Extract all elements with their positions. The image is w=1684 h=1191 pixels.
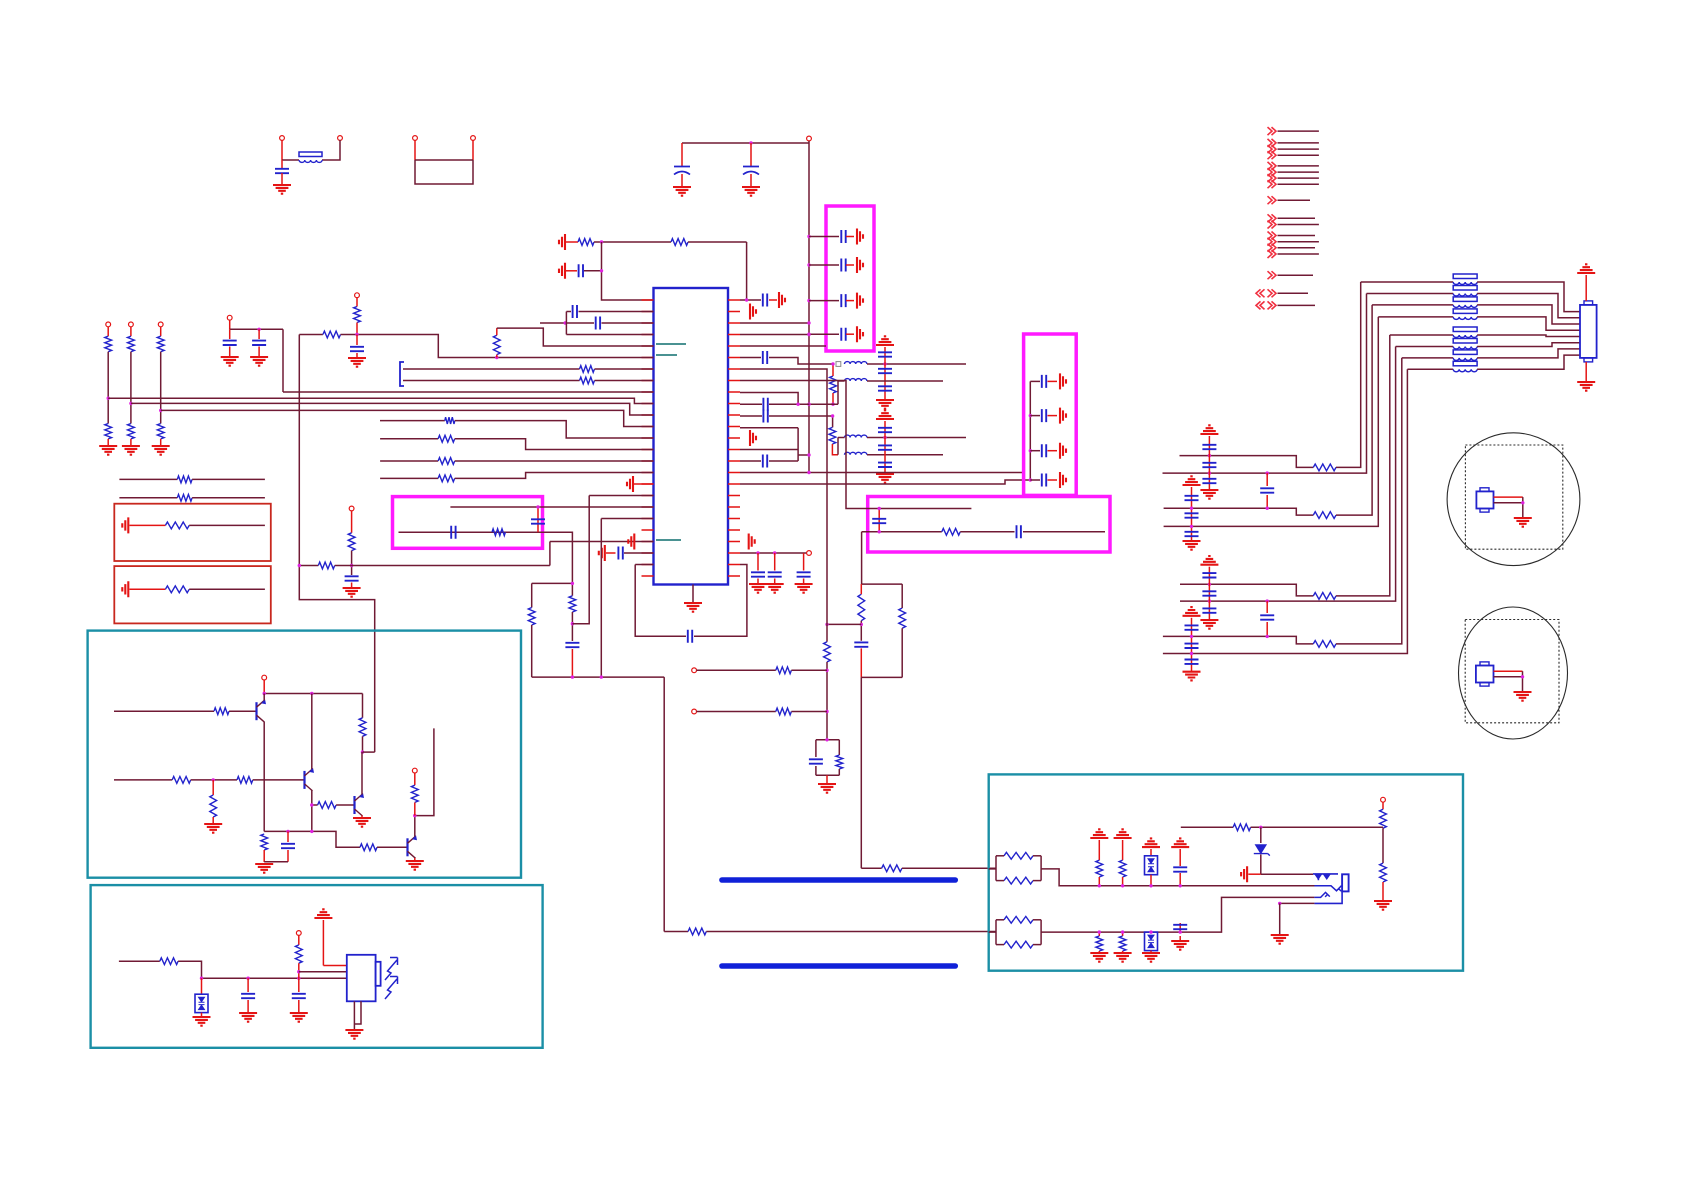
diode pack D1 d1: [199, 997, 205, 1002]
resistor R58: [1313, 512, 1336, 519]
wire W loop2 left: [995, 920, 997, 945]
ferrite bead FB3: [1453, 294, 1477, 297]
wire bead3 in: [1372, 304, 1453, 306]
diode pack D3 d2: [1148, 943, 1154, 948]
wire P3b: [356, 353, 358, 358]
resistor R43: [411, 785, 418, 802]
ferrite bead FB6 body: [1453, 327, 1477, 332]
wire W z1: [1181, 826, 1233, 828]
wire pin518 left: [601, 518, 653, 520]
ground H3: [795, 584, 813, 593]
teal box 1: [88, 631, 521, 878]
ac ground H2: [750, 304, 756, 320]
junction M1 w: [1521, 501, 1524, 504]
junction S6: [286, 830, 289, 833]
wire T r stub: [298, 936, 300, 945]
ferrite bead FB6: [1453, 335, 1477, 338]
transistor Q3 leads: [355, 794, 363, 816]
wire pin323 left: [540, 322, 594, 324]
wire W loop2 in: [989, 931, 996, 933]
ground up stack2: [876, 410, 894, 419]
chevron port 3: [1268, 145, 1277, 153]
jack tip contacts: [1313, 874, 1338, 880]
wire Q4 collector: [414, 816, 416, 837]
wire pin449 spur: [798, 454, 809, 456]
ground T4: [345, 1030, 363, 1039]
wire box2 b2: [1030, 415, 1040, 417]
ferrite bead FB8 body: [1453, 350, 1477, 355]
ac ground J4: [1060, 472, 1066, 488]
IC U1 inner line 3: [656, 539, 681, 541]
wire T c2 b: [298, 1000, 300, 1013]
ground O1: [221, 357, 239, 366]
wire pin311: [566, 311, 571, 313]
resistor R37: [210, 795, 217, 817]
junction T2: [246, 977, 249, 980]
wire W sh1 a: [1098, 840, 1100, 860]
wire rail to C7: [809, 333, 839, 335]
junction 832 416: [831, 414, 834, 417]
ground M2: [1514, 692, 1532, 701]
wire C9 out: [769, 299, 777, 301]
ac ground 3: [857, 293, 863, 309]
ac ground 2: [857, 257, 863, 273]
resistor R31: [569, 596, 576, 612]
wire C4 out: [846, 236, 854, 238]
wire F1: [566, 270, 577, 272]
ground G1: [273, 185, 291, 194]
wire chevron 15: [1278, 253, 1319, 255]
resistor R50: [1096, 860, 1103, 877]
junction W sh1: [1098, 884, 1101, 887]
capacitor C48: [1185, 532, 1199, 536]
chevron port 12: [1268, 232, 1277, 240]
wire W r1 c: [1382, 882, 1384, 901]
resistor R30: [165, 586, 189, 593]
ac ground H3: [750, 430, 756, 446]
jack sleeve: [1314, 891, 1342, 903]
ground X1: [1200, 490, 1218, 499]
wire Q1 collector: [263, 694, 265, 701]
capacitor C37: [281, 844, 295, 848]
wire T c1 b: [247, 1000, 249, 1013]
wire L3 out: [867, 437, 966, 439]
ground up W2: [1114, 829, 1132, 838]
resistor R27: [177, 476, 192, 483]
capacitor C1: [275, 169, 289, 173]
capacitor C39: [292, 994, 306, 998]
wire T rail: [202, 977, 347, 979]
wire P4 vertical: [299, 335, 374, 753]
wire RC left c: [860, 648, 862, 677]
terminal net2: [129, 322, 134, 327]
resistor R12: [105, 336, 112, 352]
ground X2: [1183, 541, 1201, 550]
wire P6a: [403, 368, 580, 370]
wire box2 b3 out: [1048, 450, 1058, 452]
ferrite bead FB9: [1453, 369, 1477, 372]
diode pack D1 d2: [199, 1005, 205, 1010]
wire C17 out: [769, 460, 798, 462]
wire N vert: [565, 312, 567, 335]
wire chain3 c: [160, 439, 162, 446]
wire T pack gnd: [201, 1013, 203, 1017]
ground G2: [673, 187, 691, 196]
wire chevron 8: [1278, 183, 1319, 185]
resistor R55: [1380, 809, 1387, 828]
wire box2 b3: [1030, 450, 1040, 452]
wire V bus: [532, 676, 665, 678]
resistor R39: [359, 718, 366, 737]
wire R37 gnd: [212, 817, 214, 824]
wire chevron 5: [1278, 165, 1319, 167]
capacitor C46: [1185, 496, 1199, 500]
wire L1 out: [867, 363, 966, 365]
wire chevron 11: [1278, 224, 1319, 226]
wire RC left b: [860, 621, 862, 641]
wire IC gnd stub: [692, 585, 694, 604]
capacitor C60: [763, 410, 767, 423]
wire box3 bottom: [862, 531, 942, 533]
terminal S1: [262, 675, 267, 680]
wire to C1: [281, 160, 283, 168]
wire W loop2 right: [1040, 920, 1042, 945]
wire pin334 to rail: [740, 334, 809, 336]
wire S link: [363, 751, 375, 753]
terminal net6: [349, 506, 354, 511]
terminal net4: [227, 315, 232, 320]
wire bead8 in: [1407, 368, 1453, 370]
capacitor C18: [1042, 375, 1046, 388]
wire drop x601: [602, 242, 654, 300]
ground up X1: [1200, 425, 1218, 434]
IC U1 inner line 1: [656, 343, 686, 345]
wire Q3 base b: [336, 804, 354, 806]
ground up T: [314, 909, 332, 918]
wire bus4: [161, 410, 654, 426]
ground M1: [1514, 518, 1532, 527]
wire C3 gnd: [750, 174, 752, 186]
ferrite bead FB5 body: [1453, 309, 1477, 314]
capacitor C3: [743, 167, 759, 175]
wire W loop1 topr: [1033, 855, 1041, 857]
wire chevron 3: [1278, 148, 1319, 150]
wire chain2 c: [130, 439, 132, 446]
wire chain3 b: [160, 352, 162, 424]
wire L2 left: [838, 381, 845, 404]
wire pin415a: [740, 415, 762, 417]
junction chain1: [107, 397, 110, 400]
resistor R32: [528, 608, 535, 626]
wire loop body3: [694, 565, 747, 637]
capacitor C15: [878, 445, 892, 449]
wire S2 stub b: [414, 802, 416, 815]
wire box3 drop: [861, 532, 863, 584]
wire W c b: [1179, 873, 1181, 886]
wire S col wire b: [362, 736, 364, 752]
junction W sl1: [1098, 930, 1101, 933]
wire box2 b2 out: [1048, 415, 1058, 417]
magenta box 2: [1024, 334, 1077, 495]
capacitor C7: [841, 328, 845, 341]
resistor R60: [1313, 641, 1336, 648]
ground up X3: [1200, 556, 1218, 565]
wire Q chain b: [351, 551, 353, 575]
capacitor C23: [1017, 525, 1021, 538]
transistor Q2 arrow: [309, 768, 314, 773]
ground up W3: [1142, 838, 1160, 847]
junction L3 capstack: [883, 436, 886, 439]
wire net4 c1: [229, 329, 231, 339]
terminal net3: [158, 322, 163, 327]
wire X colA2: [1208, 567, 1210, 619]
ground up X2: [1183, 476, 1201, 485]
IC U1: [654, 288, 729, 585]
wire Q2 emitter: [311, 791, 313, 832]
resistor R36: [172, 777, 191, 784]
wire W sl1 b: [1098, 951, 1100, 953]
wire P1 drop: [281, 140, 283, 160]
ferrite bead FB5: [1453, 317, 1477, 320]
IC U1 inner line 2: [656, 354, 677, 356]
terminal S2: [412, 768, 417, 773]
wire chevron 10: [1278, 217, 1316, 219]
wire P7b: [595, 380, 654, 382]
wire W z6: [1261, 873, 1313, 875]
ferrite bead FB7: [1453, 347, 1477, 350]
wire P6b: [595, 368, 654, 370]
junction 798 404: [796, 403, 799, 406]
junction S5: [310, 803, 313, 806]
wire V down1: [663, 677, 665, 931]
ac ground R2: [122, 581, 128, 597]
terminal K2: [692, 709, 697, 714]
wire bead6 out: [1477, 343, 1580, 347]
resistor R4: [829, 427, 836, 444]
blue bar 2: [722, 963, 955, 969]
capacitor C31: [252, 341, 266, 345]
red box 2: [114, 566, 270, 623]
resistor R8: [824, 642, 831, 662]
wire V loop a: [531, 583, 533, 607]
wire W jack gnd a: [1279, 903, 1281, 934]
wire W sl1 a: [1098, 932, 1100, 936]
ferrite bead FB8: [1453, 358, 1477, 361]
resistor R20: [323, 331, 341, 338]
wire C5 out: [846, 264, 854, 266]
capacitor C20: [1042, 444, 1046, 457]
wire W sh2 b: [1122, 877, 1124, 886]
wire 798 vertical: [797, 428, 799, 461]
junction X2: [1208, 471, 1211, 474]
wire L4 out: [867, 454, 943, 456]
motor M1 tab bottom: [1480, 509, 1489, 513]
ground Q4: [406, 861, 424, 870]
chevron port 15: [1268, 250, 1277, 258]
junction rail 323: [807, 321, 810, 324]
ground W2: [1114, 953, 1132, 962]
wire X rowD2: [1163, 369, 1408, 653]
wire box2 b4: [1030, 479, 1040, 481]
ac ground 4: [857, 326, 863, 342]
wire loop body2: [635, 565, 686, 637]
wire Q chain a: [351, 511, 353, 533]
capacitor C50: [1202, 573, 1216, 577]
capacitor C43: [1202, 445, 1216, 449]
wire loop right: [472, 140, 474, 160]
magenta box 4: [393, 497, 543, 549]
motor M2 tab bottom: [1480, 683, 1489, 687]
wire pin541 chain: [550, 541, 654, 543]
junction W sh3: [1149, 884, 1152, 887]
junction pin300: [745, 298, 748, 301]
junction cap553 b: [773, 551, 776, 554]
wire RC left a: [860, 584, 862, 594]
wire W loop1 botr: [1033, 880, 1041, 882]
wire T r stub b: [298, 963, 300, 978]
junction rail: [749, 141, 752, 144]
capacitor C8: [579, 264, 583, 277]
wire loop body: [415, 160, 473, 184]
wire M1 a: [1494, 496, 1523, 498]
junction X9: [1266, 599, 1269, 602]
wire X caplink1: [1266, 473, 1268, 486]
wire chevron 18: [1278, 304, 1316, 306]
wire stack2: [884, 421, 886, 473]
wire Q chain c: [351, 583, 353, 589]
diode pack D2: [1145, 856, 1158, 875]
transistor Q4 leads: [408, 836, 416, 858]
wire row478 a: [380, 477, 438, 479]
IR receiver U2: [347, 955, 376, 1002]
wire bus2: [108, 398, 653, 403]
wire W loop2 topr: [1033, 919, 1041, 921]
wire L3 left: [838, 437, 845, 439]
wire V loop b: [531, 625, 533, 677]
ground P1: [348, 358, 366, 367]
junction box2 2: [1029, 449, 1032, 452]
wire net4 down: [282, 329, 284, 392]
resistor R49: [1004, 941, 1033, 948]
wire S top rail: [264, 693, 362, 695]
wire c553c g: [803, 579, 805, 585]
inductor L2: [845, 379, 867, 381]
wire Q row b: [335, 565, 550, 567]
capacitor C33: [451, 526, 455, 539]
resistor R26: [318, 562, 334, 569]
junction chain2: [129, 402, 132, 405]
chevron port 7: [1268, 174, 1277, 182]
ground W jack: [1271, 935, 1289, 944]
junction S1: [263, 692, 266, 695]
capacitor C27: [596, 317, 600, 330]
wire R10 out: [791, 711, 827, 713]
chevron port 10: [1268, 214, 1277, 222]
terminal K1: [692, 668, 697, 673]
ground up X4: [1183, 607, 1201, 616]
wire pin392: [740, 393, 798, 405]
wire P2: [299, 334, 323, 336]
chevron port 11: [1268, 221, 1277, 229]
resistor R22: [580, 366, 595, 373]
ground X4: [1183, 672, 1201, 681]
wire R3 bottom: [832, 393, 834, 404]
ground T2: [239, 1013, 257, 1022]
wire chevron 7: [1278, 177, 1319, 179]
wire C37 top: [287, 831, 289, 842]
junction cap553 a: [756, 551, 759, 554]
wire S2 stub: [414, 773, 416, 785]
wire W r1 b: [1382, 828, 1384, 863]
ac ground J3: [1060, 443, 1066, 459]
junction chain3: [159, 409, 162, 412]
chevron port 4: [1268, 151, 1277, 159]
inductor L4: [845, 452, 867, 454]
junction T4: [297, 970, 300, 973]
junction RC tap: [860, 623, 863, 626]
chevron port 9: [1268, 196, 1277, 204]
resistor R48: [1004, 916, 1033, 923]
resistor R23: [580, 377, 595, 384]
dashed circle 2: [1459, 607, 1568, 739]
wire rbox2 a: [130, 588, 166, 590]
wire S col wire: [362, 694, 364, 718]
ground up W1: [1090, 829, 1108, 838]
transistor Q1: [255, 702, 257, 720]
wire chain3 a: [160, 327, 162, 336]
wire P5: [497, 328, 654, 346]
wire W loop2 botl: [996, 944, 1004, 946]
wire W c2 a: [1179, 923, 1181, 932]
wire loop left: [635, 564, 653, 566]
wire C8 to node: [584, 270, 602, 272]
connector J2 tab top: [1584, 301, 1593, 305]
wire R9 out: [791, 669, 827, 671]
wire row478 b: [455, 473, 654, 479]
capacitor C10: [763, 351, 767, 364]
junction M2: [825, 710, 828, 713]
transistor Q3 arrow: [359, 793, 364, 798]
wire bead8 out: [1477, 355, 1580, 369]
junction Q1: [536, 505, 539, 508]
wire pin369 long: [740, 369, 827, 642]
wire Q4 col link: [415, 728, 434, 815]
terminal W1: [1381, 797, 1386, 802]
wire P3a: [356, 335, 358, 346]
ac ground R1: [122, 517, 128, 533]
junction X5: [1190, 507, 1193, 510]
resistor R11: [836, 755, 843, 769]
junction M2 w: [1521, 675, 1524, 678]
wire X rowA2 b: [1336, 335, 1390, 596]
wire chevron 9: [1278, 199, 1311, 201]
ground xtal: [818, 784, 836, 793]
wire X rowA2: [1180, 584, 1313, 596]
wire C1 to ground: [281, 173, 283, 185]
ground G3: [742, 187, 760, 196]
wire S in2 b: [191, 779, 237, 781]
wire L3 vert: [837, 438, 839, 455]
wire box2 vertical: [1029, 381, 1031, 480]
junction box3 b: [878, 530, 881, 533]
wire X rowC2: [1163, 636, 1313, 644]
capacitor C13: [878, 386, 892, 390]
ac ground F1: [559, 263, 565, 279]
ground T1: [193, 1017, 211, 1026]
ferrite bead FB3 body: [1453, 286, 1477, 291]
wire S bottom: [264, 831, 360, 847]
wire bus5 b: [455, 421, 654, 438]
